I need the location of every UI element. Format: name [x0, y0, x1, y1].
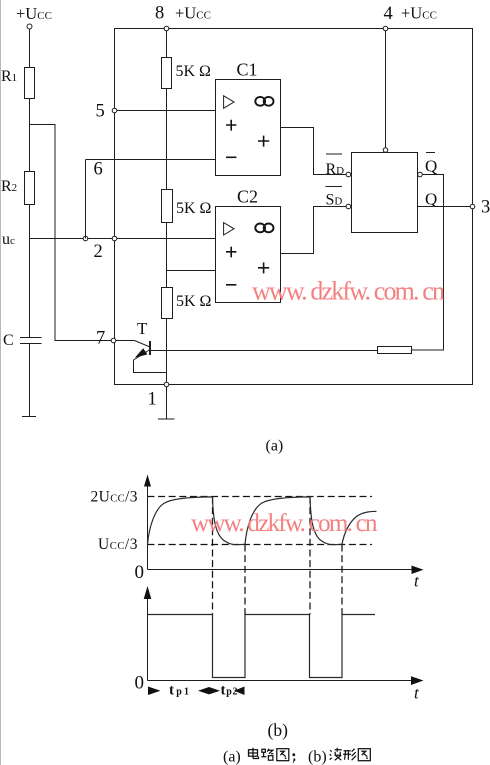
- op-amp comparator C1: [216, 60, 281, 176]
- svg-text:5: 5: [96, 102, 105, 122]
- svg-text:C2: C2: [237, 187, 258, 207]
- svg-text:0: 0: [135, 562, 145, 583]
- svg-text:uc: uc: [2, 231, 15, 248]
- wire chain to C2 minus input: [167, 270, 216, 272]
- node junction pin 6 wire: [83, 236, 88, 241]
- svg-text:2: 2: [94, 242, 103, 262]
- C2 infinity symbol: [255, 224, 273, 233]
- waveform uc axes: [135, 475, 424, 591]
- svg-text:(a): (a): [266, 438, 284, 455]
- RD label: [326, 154, 345, 178]
- wire R1-R2 junction to pin 7: [30, 125, 112, 341]
- caption bottom line: [223, 748, 370, 765]
- wire pin 4 to flip-flop: [385, 31, 387, 148]
- wire node uc to pin 2 and C2 input: [30, 238, 216, 240]
- pin 6 label: [94, 160, 103, 180]
- wire C2 output to SD input: [281, 207, 347, 254]
- svg-text:tp1: tp1: [169, 683, 189, 699]
- svg-text:t: t: [414, 572, 420, 591]
- RD input circle: [346, 172, 351, 177]
- svg-text:Q: Q: [425, 190, 437, 209]
- C1 triangle symbol: [224, 96, 234, 108]
- Qbar output circle: [418, 172, 423, 177]
- dashed vertical t3: [309, 497, 311, 615]
- svg-text:C1: C1: [237, 60, 258, 80]
- tp boundary diamond arrows: [198, 687, 220, 694]
- wire R2 to capacitor C: [29, 205, 31, 338]
- svg-text:5K Ω: 5K Ω: [176, 200, 212, 217]
- svg-text:R1: R1: [1, 68, 17, 85]
- dashed level Ucc/3: [98, 536, 372, 553]
- wire pin 1 to ground: [166, 387, 168, 419]
- svg-text:www. dzkfw. com. cn: www. dzkfw. com. cn: [252, 277, 445, 306]
- svg-text:7: 7: [96, 329, 105, 349]
- svg-text:R2: R2: [1, 178, 17, 195]
- svg-text:+UCC: +UCC: [175, 4, 211, 23]
- svg-text:0: 0: [135, 673, 145, 694]
- pin 8: [155, 4, 211, 31]
- C1 plus input sign: [226, 120, 236, 131]
- C1 minus input sign: [226, 156, 236, 158]
- svg-text:t: t: [414, 684, 420, 703]
- wire pin 5 to C1 plus input: [117, 110, 216, 112]
- node +Ucc left terminal circle: [27, 24, 32, 29]
- svg-text:C: C: [3, 332, 14, 349]
- feedback resistor: [378, 347, 412, 354]
- svg-text:T: T: [137, 319, 148, 338]
- tp2 arrow: [221, 683, 245, 699]
- svg-text:+UCC: +UCC: [401, 4, 437, 23]
- wire pin 8 to resistor chain: [166, 31, 168, 58]
- wire pin 6: [86, 160, 217, 239]
- svg-text:Q: Q: [425, 157, 437, 176]
- watermark red circuit: [252, 277, 445, 306]
- pin 2: [94, 236, 117, 262]
- dashed vertical t1: [212, 497, 214, 615]
- C2 minus input sign: [226, 284, 236, 286]
- Qbar label: [425, 153, 437, 176]
- svg-text:5K Ω: 5K Ω: [176, 63, 212, 80]
- svg-text:6: 6: [94, 160, 103, 180]
- wire Q output to pin 3: [418, 206, 471, 208]
- svg-text:(b): (b): [268, 720, 289, 740]
- pin 5: [96, 102, 117, 122]
- IC 555 boundary box: [115, 29, 473, 385]
- svg-text:RD: RD: [326, 161, 345, 178]
- resistor R2: [1, 172, 35, 205]
- capacitor voltage curve: [148, 497, 377, 545]
- svg-text:(b): (b): [308, 749, 327, 765]
- transistor T: [116, 319, 167, 373]
- pin 4: [383, 4, 437, 31]
- C1 output plus sign: [258, 136, 269, 147]
- flip-flop U1: [352, 153, 418, 233]
- svg-text:8: 8: [155, 4, 164, 24]
- waveform output axes: [135, 586, 424, 703]
- pin 1: [148, 382, 169, 409]
- svg-text:4: 4: [384, 4, 393, 24]
- resistor 5K first: [162, 58, 212, 89]
- resistor 5K third: [162, 288, 212, 319]
- output square wave: [148, 615, 376, 678]
- watermark red waveform: [191, 510, 378, 537]
- svg-text:www. dzkfw. com. cn: www. dzkfw. com. cn: [191, 510, 378, 537]
- wire C to ground: [29, 344, 31, 417]
- dashed vertical t2: [244, 545, 246, 615]
- ground under C: [22, 416, 36, 418]
- ground under pin 1: [158, 418, 175, 420]
- svg-text:(a): (a): [223, 749, 241, 765]
- C1 infinity symbol: [255, 97, 273, 106]
- caption (b): [268, 720, 289, 740]
- wire +Ucc to R1: [29, 29, 31, 68]
- svg-text:2UCC/3: 2UCC/3: [91, 489, 138, 506]
- pin 3: [470, 198, 490, 218]
- pin 7: [96, 329, 116, 349]
- op-amp comparator C2: [216, 187, 281, 303]
- wire chain 2: [166, 223, 168, 288]
- C2 output plus sign: [258, 262, 269, 273]
- svg-text:+UCC: +UCC: [16, 4, 52, 23]
- dashed level 2Ucc/3: [91, 489, 373, 506]
- caption (a): [266, 438, 284, 455]
- wire chain 3 to pin 1: [166, 319, 168, 385]
- capacitor C: [3, 332, 42, 349]
- C2 plus input sign: [226, 247, 236, 258]
- scan edge artifact line: [0, 0, 2, 765]
- svg-text:1: 1: [148, 390, 157, 410]
- resistor 5K second: [162, 190, 212, 223]
- node +Ucc left terminal label: [16, 4, 52, 23]
- svg-text:UCC/3: UCC/3: [98, 536, 138, 553]
- resistor R1: [1, 68, 35, 99]
- wire R1 to R2: [29, 99, 31, 172]
- dashed vertical t4: [341, 545, 343, 615]
- svg-text:3: 3: [481, 198, 490, 218]
- SD label: [326, 187, 343, 209]
- wire Qbar feedback: [412, 175, 444, 351]
- svg-text:SD: SD: [326, 192, 343, 209]
- wire feedback resistor to transistor base: [151, 350, 378, 352]
- flip-flop top inverting circle: [383, 148, 388, 153]
- svg-text:5K Ω: 5K Ω: [176, 293, 212, 310]
- tp1 arrow: [148, 683, 189, 699]
- wire chain 1: [166, 89, 168, 190]
- wire C1 output to RD input: [281, 128, 347, 175]
- Q output label: [425, 190, 437, 209]
- SD input circle: [346, 204, 351, 209]
- node uc label: [2, 231, 15, 248]
- C2 triangle symbol: [224, 223, 234, 235]
